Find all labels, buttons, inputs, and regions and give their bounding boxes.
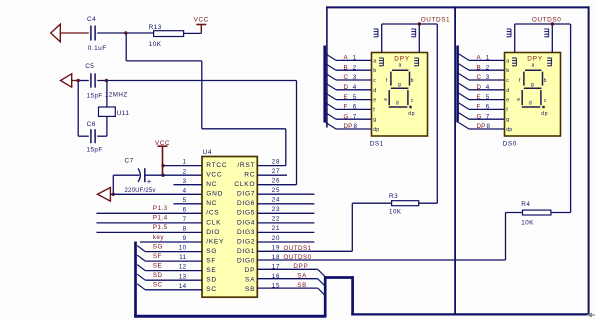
svg-text:c: c (373, 78, 376, 84)
svg-text:DPP: DPP (293, 263, 308, 270)
svg-text:DIG7: DIG7 (237, 191, 255, 198)
svg-text:10K: 10K (521, 219, 534, 226)
svg-text:3: 3 (183, 178, 187, 185)
svg-text:DIO: DIO (206, 229, 220, 236)
svg-text:RTCC: RTCC (206, 162, 227, 169)
svg-text:dp: dp (408, 111, 415, 117)
svg-text:e: e (517, 97, 520, 103)
svg-text:F: F (477, 104, 481, 111)
svg-text:C6: C6 (87, 121, 96, 128)
svg-text:E: E (344, 94, 348, 101)
svg-text:27: 27 (272, 168, 280, 175)
svg-text:d: d (529, 101, 532, 107)
svg-text:DPY: DPY (394, 55, 410, 62)
svg-text:11: 11 (179, 254, 186, 261)
svg-text:3: 3 (353, 74, 357, 81)
svg-text:SD: SD (206, 277, 217, 284)
svg-text:VCC: VCC (155, 140, 170, 147)
svg-text:DIG0: DIG0 (237, 258, 255, 265)
svg-text:/KEY: /KEY (206, 238, 224, 245)
svg-text:9: 9 (183, 235, 187, 242)
svg-text:c: c (544, 98, 547, 104)
svg-text:b: b (506, 68, 509, 74)
svg-text:A: A (477, 55, 482, 62)
svg-text:24: 24 (272, 197, 280, 204)
svg-text:4: 4 (183, 187, 187, 194)
svg-text:5: 5 (353, 94, 357, 101)
svg-text:D: D (477, 84, 482, 91)
svg-text:SD: SD (153, 272, 163, 279)
svg-text:g: g (531, 82, 534, 88)
svg-text:10K: 10K (389, 208, 402, 215)
svg-text:e: e (384, 97, 387, 103)
svg-text:DS1: DS1 (370, 140, 384, 147)
svg-text:15pF: 15pF (87, 147, 103, 154)
svg-text:19: 19 (272, 244, 280, 251)
svg-text:g: g (398, 82, 401, 88)
svg-text:C4: C4 (87, 16, 96, 23)
svg-text:DPY: DPY (527, 55, 543, 62)
svg-text:SG: SG (206, 248, 217, 255)
svg-text:5: 5 (183, 197, 187, 204)
svg-text:2: 2 (183, 168, 187, 175)
svg-text:f: f (386, 78, 388, 84)
svg-text:a: a (399, 63, 402, 69)
svg-text:a: a (506, 58, 509, 64)
svg-text:23: 23 (272, 206, 280, 213)
svg-text:SF: SF (153, 253, 162, 260)
svg-text:GND: GND (206, 191, 223, 198)
svg-text:1: 1 (183, 159, 187, 166)
svg-text:SC: SC (153, 282, 163, 289)
svg-text:8: 8 (183, 226, 187, 233)
svg-text:13: 13 (179, 273, 187, 280)
svg-text:2: 2 (353, 64, 357, 71)
svg-text:DIG1: DIG1 (237, 248, 255, 255)
svg-text:P1.4: P1.4 (153, 215, 168, 222)
svg-text:b: b (373, 68, 376, 74)
svg-text:dp: dp (541, 111, 548, 117)
svg-text:c: c (411, 98, 414, 104)
svg-text:SE: SE (153, 262, 162, 269)
svg-text:28: 28 (272, 158, 280, 165)
svg-text:VCC: VCC (194, 17, 209, 24)
svg-text:f: f (519, 78, 521, 84)
svg-text:5: 5 (486, 94, 490, 101)
svg-text:U11: U11 (117, 110, 130, 117)
svg-text:DIG5: DIG5 (237, 210, 255, 217)
svg-text:7: 7 (353, 113, 357, 120)
svg-text:21: 21 (272, 225, 280, 232)
svg-text:P1.3: P1.3 (153, 205, 168, 212)
svg-text:U4: U4 (203, 149, 212, 156)
svg-text:VCC: VCC (206, 172, 222, 179)
svg-text:d: d (506, 88, 509, 94)
svg-text:a: a (532, 63, 535, 69)
svg-text:8: 8 (354, 123, 358, 130)
svg-text:+: + (147, 177, 152, 186)
svg-text:DIG3: DIG3 (237, 229, 255, 236)
svg-text:25: 25 (272, 187, 280, 194)
svg-text:0.1uF: 0.1uF (88, 45, 107, 52)
svg-text:F: F (344, 104, 348, 111)
svg-text:DIG2: DIG2 (237, 238, 255, 245)
svg-text:P1.5: P1.5 (153, 224, 168, 231)
svg-text:/CS: /CS (206, 210, 219, 217)
svg-text:8: 8 (487, 123, 491, 130)
svg-text:C: C (344, 74, 349, 81)
svg-text:1: 1 (353, 55, 357, 62)
svg-text:220UF/25v: 220UF/25v (125, 188, 156, 194)
svg-text:SB: SB (297, 282, 307, 289)
svg-text:E: E (477, 94, 481, 101)
svg-text:SA: SA (297, 273, 307, 280)
svg-text:DP: DP (344, 123, 353, 130)
svg-text:/RST: /RST (237, 162, 255, 169)
svg-text:CLKO: CLKO (234, 181, 255, 188)
svg-text:DIG6: DIG6 (237, 200, 255, 207)
svg-text:C7: C7 (125, 158, 134, 165)
svg-text:SF: SF (206, 258, 216, 265)
svg-text:B: B (344, 64, 348, 71)
svg-text:SE: SE (206, 267, 216, 274)
svg-text:DIG4: DIG4 (237, 219, 255, 226)
svg-text:R3: R3 (389, 193, 398, 200)
svg-text:D: D (344, 84, 349, 91)
svg-text:R4: R4 (521, 201, 530, 208)
svg-text:A: A (344, 55, 349, 62)
svg-text:c: c (506, 78, 509, 84)
svg-text:1: 1 (486, 55, 490, 62)
svg-text:NC: NC (206, 200, 217, 207)
svg-text:key: key (153, 234, 165, 241)
svg-text:12MHZ: 12MHZ (105, 92, 128, 99)
svg-text:4: 4 (353, 84, 357, 91)
svg-text:7: 7 (183, 216, 187, 223)
svg-text:d: d (396, 101, 399, 107)
svg-text:2: 2 (486, 64, 490, 71)
svg-text:dp: dp (506, 127, 512, 133)
svg-text:4: 4 (486, 84, 490, 91)
svg-text:e: e (373, 98, 376, 104)
svg-text:6: 6 (183, 206, 187, 213)
svg-text:CLK: CLK (206, 219, 221, 226)
svg-text:DP: DP (245, 267, 256, 274)
svg-text:G: G (344, 113, 349, 120)
svg-text:OUTDS0: OUTDS0 (532, 16, 562, 23)
svg-text:RC: RC (244, 172, 255, 179)
svg-text:SG: SG (153, 243, 163, 250)
svg-text:g: g (373, 117, 376, 123)
svg-text:7: 7 (486, 113, 490, 120)
svg-text:g: g (506, 117, 509, 123)
svg-text:dp: dp (373, 127, 379, 133)
svg-text:b: b (411, 78, 414, 84)
svg-text:OUTDS1: OUTDS1 (421, 16, 451, 23)
svg-text:6: 6 (486, 104, 490, 111)
svg-text:DS0: DS0 (503, 140, 517, 147)
svg-text:3: 3 (486, 74, 490, 81)
svg-text:26: 26 (272, 178, 280, 185)
svg-text:NC: NC (206, 181, 217, 188)
svg-text:R13: R13 (149, 24, 162, 31)
svg-text:DP: DP (477, 123, 486, 130)
svg-text:e: e (506, 98, 509, 104)
svg-text:b: b (544, 78, 547, 84)
svg-text:10K: 10K (149, 41, 162, 48)
svg-text:6: 6 (353, 104, 357, 111)
svg-text:20: 20 (272, 235, 280, 242)
svg-text:B: B (477, 64, 481, 71)
svg-text:12: 12 (179, 264, 187, 271)
svg-text:C: C (477, 74, 482, 81)
svg-text:SA: SA (245, 277, 255, 284)
svg-text:15pF: 15pF (87, 92, 103, 99)
svg-text:14: 14 (179, 283, 187, 290)
svg-text:G: G (477, 113, 482, 120)
svg-text:a: a (373, 58, 376, 64)
svg-text:10: 10 (179, 245, 187, 252)
svg-text:OUTDS1: OUTDS1 (284, 245, 312, 252)
svg-text:22: 22 (272, 216, 280, 223)
svg-text:d: d (373, 88, 376, 94)
svg-text:C5: C5 (85, 63, 94, 70)
svg-text:SC: SC (206, 286, 217, 293)
svg-text:SB: SB (245, 286, 255, 293)
svg-text:OUTDS0: OUTDS0 (284, 254, 312, 261)
